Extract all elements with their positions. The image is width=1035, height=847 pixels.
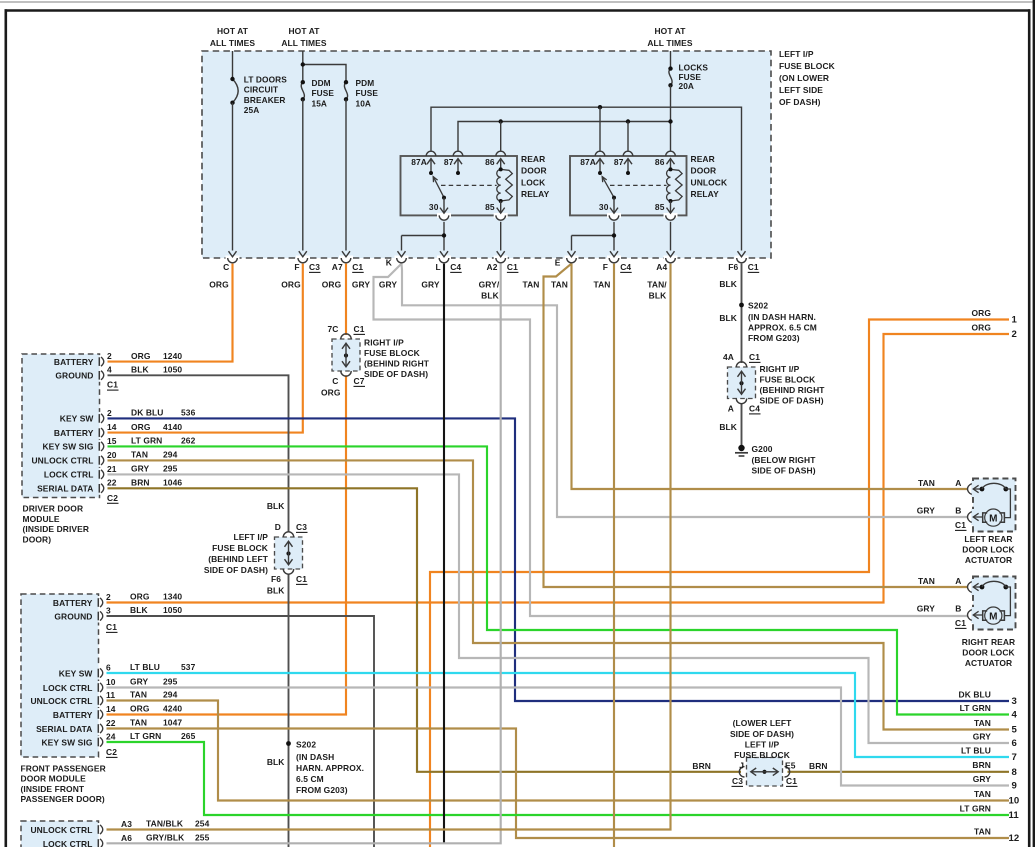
- svg-text:DK BLU: DK BLU: [959, 689, 991, 699]
- svg-text:ORG: ORG: [281, 280, 301, 290]
- svg-text:BLK: BLK: [267, 501, 285, 511]
- connector exit A4: [656, 251, 677, 272]
- svg-text:KEY SW SIG: KEY SW SIG: [42, 442, 93, 452]
- svg-text:30: 30: [599, 202, 609, 212]
- rear module (partial at bottom): [21, 819, 210, 847]
- wire LT BLU 537: passenger key sw to right edge wire 7: [104, 673, 1009, 757]
- wire: battery feed into DDM fuse + tap to PDM fuse: [302, 51, 304, 82]
- svg-text:536: 536: [181, 408, 196, 418]
- svg-text:21: 21: [107, 464, 117, 474]
- wire TAN 1047: passenger serial data to right edge wire 12: [104, 729, 1009, 839]
- svg-text:SERIAL DATA: SERIAL DATA: [36, 724, 92, 734]
- svg-text:KEY SW SIG: KEY SW SIG: [41, 737, 92, 747]
- svg-text:SIDE OF DASH): SIDE OF DASH): [760, 396, 824, 406]
- svg-text:S202: S202: [296, 740, 316, 750]
- svg-text:HOT AT: HOT AT: [654, 26, 686, 36]
- svg-text:BATTERY: BATTERY: [53, 710, 93, 720]
- svg-text:(LOWER LEFT: (LOWER LEFT: [733, 718, 792, 728]
- connector: RIGHT I/P fuse block 4A-C1 / A-C4: [723, 352, 825, 414]
- svg-text:87A: 87A: [411, 157, 427, 167]
- right edge wire number labels 1-12: [959, 308, 1020, 844]
- svg-text:SIDE OF DASH): SIDE OF DASH): [752, 466, 816, 476]
- svg-text:FUSE BLOCK: FUSE BLOCK: [779, 61, 836, 71]
- svg-text:UNLOCK CTRL: UNLOCK CTRL: [30, 825, 92, 835]
- wire DK BLU 536: driver key sw to right edge wire 3: [105, 418, 1010, 701]
- svg-text:DOOR: DOOR: [521, 166, 547, 176]
- svg-text:BRN: BRN: [809, 761, 828, 771]
- svg-text:ACTUATOR: ACTUATOR: [965, 658, 1012, 668]
- svg-text:5: 5: [1012, 725, 1018, 736]
- wire ORG: right edge wire 1 down left and off bottom: [430, 320, 1009, 847]
- connector exit K: [386, 251, 409, 267]
- svg-text:86: 86: [655, 157, 665, 167]
- svg-text:3: 3: [106, 605, 111, 615]
- connector exit E: [555, 251, 579, 267]
- svg-text:A3: A3: [121, 819, 132, 829]
- svg-text:LT GRN: LT GRN: [960, 703, 991, 713]
- svg-text:A2: A2: [487, 262, 498, 272]
- svg-text:RIGHT I/P: RIGHT I/P: [760, 364, 800, 374]
- svg-text:DOOR LOCK: DOOR LOCK: [962, 544, 1015, 554]
- fuse PDM 10A: [344, 78, 379, 108]
- svg-text:ORG: ORG: [130, 592, 150, 602]
- connector exit F / C4: [603, 251, 632, 272]
- svg-text:G200: G200: [752, 444, 773, 454]
- svg-text:BLK: BLK: [649, 291, 667, 301]
- svg-text:F6: F6: [728, 262, 738, 272]
- svg-text:RIGHT I/P: RIGHT I/P: [364, 338, 404, 348]
- svg-text:HOT AT: HOT AT: [288, 26, 320, 36]
- svg-text:4240: 4240: [163, 704, 182, 714]
- svg-text:295: 295: [163, 677, 178, 687]
- svg-text:UNLOCK CTRL: UNLOCK CTRL: [31, 456, 93, 466]
- connector exit A2 / C1: [487, 251, 519, 272]
- svg-text:FUSE BLOCK: FUSE BLOCK: [212, 543, 269, 553]
- svg-text:C: C: [332, 376, 338, 386]
- wire: battery feed into LOCKS fuse: [670, 51, 672, 69]
- svg-text:PASSENGER DOOR): PASSENGER DOOR): [21, 794, 105, 804]
- svg-text:F: F: [603, 262, 608, 272]
- svg-text:ORG: ORG: [971, 308, 991, 318]
- wire TAN: exit E branch to right rear actuator pin A: [544, 264, 968, 587]
- svg-text:ALL TIMES: ALL TIMES: [281, 38, 327, 48]
- right rear door lock actuator: [917, 576, 1016, 668]
- svg-text:RIGHT REAR: RIGHT REAR: [962, 637, 1016, 647]
- svg-text:LEFT REAR: LEFT REAR: [964, 534, 1012, 544]
- svg-text:22: 22: [107, 478, 117, 488]
- svg-text:22: 22: [106, 718, 116, 728]
- svg-text:UNLOCK CTRL: UNLOCK CTRL: [30, 696, 92, 706]
- svg-text:GRY: GRY: [379, 280, 398, 290]
- svg-text:LEFT I/P: LEFT I/P: [233, 532, 268, 542]
- svg-text:2: 2: [107, 408, 112, 418]
- left I/P fuse block (dashed box): [202, 51, 771, 258]
- svg-text:MODULE: MODULE: [23, 514, 60, 524]
- svg-text:(BEHIND LEFT: (BEHIND LEFT: [208, 554, 269, 564]
- svg-text:3: 3: [1012, 696, 1017, 707]
- svg-text:254: 254: [195, 819, 210, 829]
- svg-text:GRY: GRY: [973, 731, 992, 741]
- ground G200: [735, 444, 816, 476]
- svg-text:11: 11: [106, 690, 115, 700]
- svg-text:A6: A6: [121, 833, 132, 843]
- svg-text:30: 30: [429, 202, 439, 212]
- svg-text:TAN: TAN: [593, 280, 610, 290]
- svg-text:OF DASH): OF DASH): [779, 97, 821, 107]
- svg-text:C: C: [223, 262, 229, 272]
- svg-text:BLK: BLK: [719, 279, 737, 289]
- svg-text:BRN: BRN: [131, 478, 150, 488]
- svg-text:KEY SW: KEY SW: [59, 668, 93, 678]
- svg-text:LOCK: LOCK: [521, 177, 546, 187]
- relay: REAR DOOR UNLOCK RELAY: [570, 151, 728, 220]
- svg-text:BREAKER: BREAKER: [244, 95, 286, 105]
- svg-text:C4: C4: [450, 262, 461, 272]
- svg-text:L: L: [436, 262, 441, 272]
- label: HOT AT ALL TIMES (DDM/PDM fuses): [281, 26, 327, 48]
- svg-text:GRY/BLK: GRY/BLK: [146, 833, 185, 843]
- svg-text:E5: E5: [785, 761, 796, 771]
- svg-text:C3: C3: [732, 776, 743, 786]
- svg-text:C7: C7: [354, 376, 365, 386]
- svg-text:12: 12: [1009, 833, 1020, 844]
- svg-text:ALL TIMES: ALL TIMES: [210, 38, 256, 48]
- svg-text:C3: C3: [296, 522, 307, 532]
- wire LT GRN 262: driver key sw sig to right edge wire 4: [105, 446, 1010, 714]
- wire GRY 295: passenger lock ctrl to right edge wire 9: [104, 688, 1009, 786]
- svg-text:BLK: BLK: [267, 585, 285, 595]
- wire TAN/BLK 254: exit A4 down to rear module unlock ctrl A3: [104, 264, 671, 830]
- svg-text:ORG: ORG: [209, 280, 229, 290]
- svg-text:14: 14: [106, 704, 116, 714]
- svg-text:LT DOORS: LT DOORS: [244, 74, 287, 84]
- svg-text:4: 4: [107, 365, 112, 375]
- svg-text:87: 87: [614, 157, 624, 167]
- wire ORG 4140: exit F/C3 to driver door module battery 14: [105, 264, 303, 433]
- label: HOT AT ALL TIMES (left doors breaker): [210, 26, 256, 48]
- svg-text:11: 11: [1009, 810, 1020, 821]
- svg-text:1046: 1046: [163, 478, 182, 488]
- svg-text:LEFT SIDE: LEFT SIDE: [779, 85, 823, 95]
- connector: LEFT I/P fuse block D-C3 / F6-C1: [204, 501, 308, 595]
- svg-text:1050: 1050: [163, 365, 182, 375]
- svg-text:F: F: [294, 262, 299, 272]
- svg-text:TAN: TAN: [918, 478, 935, 488]
- svg-text:K: K: [386, 258, 393, 268]
- svg-text:GRY/: GRY/: [479, 280, 500, 290]
- svg-text:TAN: TAN: [130, 690, 147, 700]
- svg-text:BLK: BLK: [267, 757, 285, 767]
- svg-text:FUSE: FUSE: [356, 88, 379, 98]
- wire GRY 295: driver lock ctrl to right edge wire 6: [105, 474, 1010, 743]
- svg-text:294: 294: [163, 690, 178, 700]
- wire: breaker to exit C: [232, 103, 234, 251]
- wire GRY (dark): exit L/C4 down: [443, 264, 445, 844]
- wire ORG 1340: passenger module battery 2 to right edge wire 2: [104, 334, 1009, 603]
- label: LEFT I/P FUSE BLOCK (ON LOWER LEFT SIDE OF DASH): [779, 49, 836, 107]
- svg-text:UNLOCK: UNLOCK: [691, 177, 728, 187]
- svg-text:ORG: ORG: [130, 704, 150, 714]
- svg-text:7: 7: [1012, 752, 1017, 763]
- page top hairline: [0, 1, 1035, 3]
- svg-text:(INSIDE DRIVER: (INSIDE DRIVER: [23, 524, 90, 534]
- svg-text:1240: 1240: [163, 351, 182, 361]
- svg-text:BATTERY: BATTERY: [53, 598, 93, 608]
- svg-text:1050: 1050: [163, 605, 182, 615]
- fuse LOCKS 20A: [668, 63, 708, 92]
- svg-text:C1: C1: [106, 622, 117, 632]
- svg-text:BRN: BRN: [972, 760, 991, 770]
- svg-text:2: 2: [1012, 329, 1017, 340]
- wire GRY/BLK 255: exit A2/C1 down to rear module lock ctrl A6: [104, 264, 501, 844]
- svg-text:ORG: ORG: [321, 388, 341, 398]
- svg-text:GRY: GRY: [131, 464, 150, 474]
- wire: relay1 30 to exits K and L: [443, 222, 445, 251]
- svg-text:APPROX. 6.5 CM: APPROX. 6.5 CM: [748, 323, 817, 333]
- wire TAN 294: driver unlock ctrl to right edge wire 5: [105, 460, 1010, 729]
- svg-text:REAR: REAR: [521, 154, 545, 164]
- svg-text:4: 4: [1012, 710, 1018, 721]
- wire: relay2 85 to exit A4: [670, 222, 672, 251]
- svg-text:LEFT I/P: LEFT I/P: [745, 740, 780, 750]
- svg-text:4140: 4140: [163, 422, 182, 432]
- svg-text:TAN: TAN: [974, 718, 991, 728]
- svg-text:LEFT I/P: LEFT I/P: [779, 49, 814, 59]
- svg-text:ORG: ORG: [131, 422, 151, 432]
- svg-text:J: J: [739, 761, 744, 771]
- wire BLK: left I/P fuse block F6-C1 down through S202 splice off bottom: [288, 574, 290, 847]
- svg-text:(BELOW RIGHT: (BELOW RIGHT: [752, 455, 817, 465]
- svg-text:BLK: BLK: [131, 365, 149, 375]
- wire BLK: exit F6 to S202 splice, 4A-C1/A-C4 and G200: [741, 264, 743, 363]
- svg-text:B: B: [955, 604, 961, 614]
- svg-text:RELAY: RELAY: [691, 189, 720, 199]
- svg-text:C1: C1: [748, 262, 759, 272]
- wire TAN 294: passenger unlock ctrl to right edge wire 10: [104, 701, 1009, 801]
- svg-text:A: A: [955, 576, 961, 586]
- svg-text:FROM G203): FROM G203): [748, 333, 800, 343]
- svg-text:GROUND: GROUND: [54, 611, 92, 621]
- svg-text:S202: S202: [748, 301, 768, 311]
- svg-text:255: 255: [195, 833, 210, 843]
- svg-text:BLK: BLK: [719, 313, 737, 323]
- svg-text:(BEHIND RIGHT: (BEHIND RIGHT: [364, 359, 430, 369]
- wire: 87A bus (to F6): [431, 107, 742, 250]
- svg-text:ALL TIMES: ALL TIMES: [647, 38, 693, 48]
- svg-text:8: 8: [1012, 767, 1018, 778]
- wire BRN 1046: driver serial data to left I/P fuse block J-C3: [105, 488, 742, 772]
- svg-text:M: M: [989, 611, 997, 622]
- svg-text:87A: 87A: [580, 157, 596, 167]
- svg-text:E: E: [555, 258, 561, 268]
- svg-text:C1: C1: [352, 262, 363, 272]
- svg-text:25A: 25A: [244, 105, 260, 115]
- svg-text:85: 85: [655, 202, 665, 212]
- svg-text:10: 10: [106, 677, 116, 687]
- svg-text:20: 20: [107, 450, 117, 460]
- svg-text:A7: A7: [332, 262, 343, 272]
- svg-text:24: 24: [106, 731, 116, 741]
- svg-text:294: 294: [163, 450, 178, 460]
- svg-text:FRONT PASSENGER: FRONT PASSENGER: [21, 764, 106, 774]
- svg-text:SIDE OF DASH): SIDE OF DASH): [364, 369, 428, 379]
- circuit breaker LT DOORS 25A: [230, 74, 287, 115]
- fuse DDM 15A: [301, 78, 335, 108]
- svg-text:2: 2: [107, 351, 112, 361]
- wire: relay1 85 to exit A2: [500, 222, 502, 251]
- svg-text:14: 14: [107, 422, 117, 432]
- svg-text:GRY: GRY: [421, 280, 440, 290]
- wire ORG 1240: exit C to driver door module battery: [105, 264, 233, 362]
- svg-text:6.5 CM: 6.5 CM: [296, 774, 324, 784]
- svg-text:REAR: REAR: [691, 154, 715, 164]
- svg-text:PDM: PDM: [356, 78, 375, 88]
- svg-text:LOCK CTRL: LOCK CTRL: [43, 683, 93, 693]
- svg-text:BLK: BLK: [130, 605, 148, 615]
- svg-text:LT GRN: LT GRN: [130, 731, 161, 741]
- wire: coil/87 bus from LOCKS fuse: [458, 122, 671, 151]
- svg-text:A: A: [728, 404, 734, 414]
- svg-text:1340: 1340: [163, 592, 182, 602]
- svg-text:DK BLU: DK BLU: [131, 408, 163, 418]
- wire: relay2 87 drop: [627, 122, 629, 151]
- svg-text:HARN. APPROX.: HARN. APPROX.: [296, 763, 364, 773]
- svg-text:GRY: GRY: [917, 604, 936, 614]
- wire color labels below fuse block: [209, 280, 667, 301]
- svg-text:GRY: GRY: [973, 774, 992, 784]
- svg-text:F6: F6: [271, 574, 281, 584]
- wire BRN: left I/P fuse block E5-C1 to right edge wire 8: [788, 771, 1010, 773]
- svg-text:20A: 20A: [679, 81, 695, 91]
- svg-text:BATTERY: BATTERY: [54, 428, 94, 438]
- wire BLK 1050: driver module ground to left I/P fuse block D-C3: [105, 375, 289, 532]
- svg-text:DOOR): DOOR): [23, 534, 52, 544]
- svg-text:LT BLU: LT BLU: [961, 745, 991, 755]
- svg-text:15: 15: [107, 436, 117, 446]
- svg-text:DOOR MODULE: DOOR MODULE: [21, 774, 87, 784]
- svg-text:LOCK CTRL: LOCK CTRL: [43, 839, 93, 847]
- svg-text:C1: C1: [749, 352, 760, 362]
- svg-text:FUSE BLOCK: FUSE BLOCK: [364, 348, 421, 358]
- svg-text:4A: 4A: [723, 352, 734, 362]
- svg-text:DDM: DDM: [312, 78, 331, 88]
- svg-text:HOT AT: HOT AT: [217, 26, 249, 36]
- svg-text:C1: C1: [955, 618, 966, 628]
- connector exit A7 / C1: [332, 251, 364, 272]
- wire ORG 4240: exit A7/C1 through right I/P fuse block 7C-C1/C-C7 to passenger module battery 14: [345, 264, 347, 335]
- svg-text:B: B: [955, 506, 961, 516]
- svg-text:LOCK CTRL: LOCK CTRL: [44, 470, 94, 480]
- svg-text:2: 2: [106, 592, 111, 602]
- svg-text:265: 265: [181, 731, 196, 741]
- svg-text:(INSIDE FRONT: (INSIDE FRONT: [21, 784, 85, 794]
- svg-text:(IN DASH HARN.: (IN DASH HARN.: [748, 312, 816, 322]
- connector exit F6 / C1: [728, 251, 759, 272]
- svg-text:1: 1: [1012, 315, 1018, 326]
- wire: relay1 86 drop: [500, 122, 502, 151]
- svg-text:C1: C1: [507, 262, 518, 272]
- svg-text:GRY: GRY: [130, 677, 149, 687]
- label: HOT AT ALL TIMES (locks fuse): [647, 26, 693, 48]
- svg-text:BLK: BLK: [481, 291, 499, 301]
- svg-text:ORG: ORG: [971, 322, 991, 332]
- svg-text:C1: C1: [296, 574, 307, 584]
- svg-text:C2: C2: [106, 747, 117, 757]
- svg-text:KEY SW: KEY SW: [60, 414, 94, 424]
- splice S202 (dash harness, F6 BLK): [739, 301, 817, 344]
- wire BLK 1050: passenger module ground down off bottom: [104, 616, 374, 847]
- svg-text:TAN: TAN: [131, 450, 148, 460]
- svg-text:A: A: [955, 478, 961, 488]
- svg-text:85: 85: [485, 202, 495, 212]
- svg-text:(BEHIND RIGHT: (BEHIND RIGHT: [760, 385, 826, 395]
- svg-text:C3: C3: [309, 262, 320, 272]
- connector exit F / C3: [294, 251, 320, 272]
- svg-text:LT BLU: LT BLU: [130, 662, 160, 672]
- wire: DDM fuse to exit F: [302, 99, 304, 250]
- svg-text:1047: 1047: [163, 718, 182, 728]
- svg-text:C4: C4: [620, 262, 631, 272]
- svg-text:537: 537: [181, 662, 196, 672]
- front passenger door module: [21, 592, 196, 804]
- svg-text:C1: C1: [786, 776, 797, 786]
- svg-text:LT GRN: LT GRN: [960, 803, 991, 813]
- svg-text:TAN: TAN: [918, 576, 935, 586]
- connector: RIGHT I/P fuse block 7C-C1 / C-C7: [321, 324, 430, 398]
- svg-text:ACTUATOR: ACTUATOR: [965, 555, 1012, 565]
- svg-text:FUSE BLOCK: FUSE BLOCK: [734, 750, 791, 760]
- svg-text:C4: C4: [749, 404, 760, 414]
- svg-text:DOOR LOCK: DOOR LOCK: [962, 647, 1015, 657]
- svg-text:D: D: [275, 522, 281, 532]
- svg-text:7C: 7C: [328, 324, 339, 334]
- svg-text:15A: 15A: [312, 98, 328, 108]
- svg-text:GROUND: GROUND: [55, 371, 93, 381]
- svg-text:C2: C2: [107, 493, 118, 503]
- wire TAN: exit F/C4 down off bottom: [613, 264, 615, 847]
- wire: battery feed into LT DOORS breaker: [232, 51, 234, 79]
- svg-text:TAN/BLK: TAN/BLK: [146, 819, 184, 829]
- svg-text:GRY: GRY: [917, 506, 936, 516]
- svg-text:TAN: TAN: [522, 280, 539, 290]
- connector exit L / C4: [436, 251, 462, 272]
- svg-text:ORG: ORG: [322, 280, 342, 290]
- svg-text:TAN: TAN: [130, 718, 147, 728]
- svg-text:FUSE: FUSE: [312, 88, 335, 98]
- svg-text:DOOR: DOOR: [691, 166, 717, 176]
- svg-text:FROM G203): FROM G203): [296, 785, 348, 795]
- svg-text:GRY: GRY: [352, 280, 371, 290]
- wire: relay2 87A drop: [599, 107, 601, 151]
- svg-text:BATTERY: BATTERY: [54, 357, 94, 367]
- svg-text:86: 86: [485, 157, 495, 167]
- svg-text:87: 87: [444, 157, 454, 167]
- svg-text:ORG: ORG: [131, 351, 151, 361]
- svg-text:C1: C1: [955, 520, 966, 530]
- relay: REAR DOOR LOCK RELAY: [401, 151, 550, 220]
- svg-text:A4: A4: [656, 262, 667, 272]
- svg-text:TAN: TAN: [974, 789, 991, 799]
- svg-text:295: 295: [163, 464, 178, 474]
- svg-text:SIDE OF DASH): SIDE OF DASH): [730, 729, 794, 739]
- svg-text:BRN: BRN: [692, 761, 711, 771]
- svg-text:FUSE BLOCK: FUSE BLOCK: [760, 375, 817, 385]
- svg-text:10: 10: [1009, 796, 1020, 807]
- svg-text:C1: C1: [107, 380, 118, 390]
- splice S202 (passenger BLK): [286, 740, 364, 796]
- svg-text:TAN: TAN: [974, 826, 991, 836]
- wire: LOCKS fuse down to relay coil bus: [670, 85, 672, 151]
